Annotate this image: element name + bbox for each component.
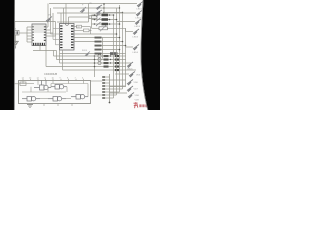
wire to vd3 xyxy=(125,28,127,31)
ic U2 left pins xyxy=(60,25,62,48)
cluster C rows xyxy=(54,56,137,70)
led VD5 xyxy=(127,62,133,68)
resistor RB6 xyxy=(110,52,118,55)
ic U1 bottom pin band xyxy=(33,43,45,46)
connector right wires xyxy=(110,74,130,93)
ic U1 right stubs xyxy=(46,27,56,36)
svg-text:LED1: LED1 xyxy=(137,9,143,11)
led VD2b xyxy=(135,19,141,25)
node dots cluster C xyxy=(94,55,112,67)
black band left xyxy=(0,0,14,110)
pin stubs bottom xyxy=(30,104,72,107)
wire riser x55.5 xyxy=(55,22,57,37)
wire to vd4 xyxy=(126,46,134,48)
node col x104 xyxy=(103,3,105,13)
bus v1 xyxy=(113,15,115,98)
bus v4 xyxy=(122,13,124,90)
wire top h1 xyxy=(49,3,137,5)
ic U2 body xyxy=(60,24,75,51)
svg-text:1N: 1N xyxy=(48,15,51,17)
ic U2 left stubs xyxy=(51,29,60,45)
transistor Q3 xyxy=(22,97,40,102)
ic U1 inner pins xyxy=(34,24,44,33)
band right soft edge xyxy=(141,0,148,110)
wire top h3 xyxy=(57,12,104,14)
led VD3 xyxy=(133,29,139,35)
wire to vd2 xyxy=(104,12,136,14)
diode D1 top xyxy=(96,5,102,10)
svg-text:LED3: LED3 xyxy=(135,26,141,28)
wire ic1 bottom path xyxy=(33,46,95,78)
wire v x88.5 xyxy=(88,4,90,23)
bus v5 xyxy=(125,28,127,86)
svg-text:LED3: LED3 xyxy=(133,37,139,39)
wire box to connector a xyxy=(91,80,103,82)
paper background xyxy=(0,0,160,110)
transistor Qm diag xyxy=(85,52,90,57)
bus v3 xyxy=(119,5,121,92)
arrow A1 xyxy=(96,13,101,26)
svg-text:LED5: LED5 xyxy=(127,68,133,70)
wire rb6 right xyxy=(118,53,126,55)
pin numbers top xyxy=(22,78,85,80)
ladder A row1 xyxy=(92,15,126,28)
transistor Q5 xyxy=(71,95,88,100)
bus joints xyxy=(113,7,127,50)
ic U1 left stubs xyxy=(27,27,32,42)
parts right of ic2 xyxy=(74,25,92,34)
transistor Q2 xyxy=(51,85,67,90)
bus v2 xyxy=(116,8,118,95)
diode VD3 left xyxy=(46,17,52,23)
circles cluster C xyxy=(98,54,101,64)
ic U2 notch xyxy=(65,24,69,26)
svg-text:CD4069UB: CD4069UB xyxy=(44,72,57,76)
crystal inner bars xyxy=(14,31,16,34)
node dots ladA xyxy=(94,14,111,25)
wire y1 down xyxy=(15,35,17,41)
capacitor C1 diagonal xyxy=(80,7,86,13)
resistor RA2 xyxy=(102,18,109,21)
svg-text:VD: VD xyxy=(89,3,92,5)
wire y1 drop xyxy=(14,22,16,31)
bus elbows bottom xyxy=(110,86,126,98)
black band right xyxy=(141,0,160,110)
transistor Q4 xyxy=(48,97,66,102)
cap C2 in box xyxy=(20,82,26,86)
wire into box left xyxy=(14,83,20,85)
boxes cluster C mid xyxy=(104,55,109,68)
box U3 outline xyxy=(19,81,91,104)
wire y1 to ic xyxy=(19,32,27,34)
pin stubs top xyxy=(23,79,84,81)
led VD8 xyxy=(128,93,134,99)
led VD7 xyxy=(127,86,133,92)
wire h y17 to resistor xyxy=(69,16,89,18)
logo red text xyxy=(139,104,149,107)
wire h from node1 xyxy=(104,7,120,9)
ic U2 right pins xyxy=(71,25,73,48)
ic U1 right inner pins xyxy=(44,26,46,41)
wire box to connector b xyxy=(91,94,103,96)
wire cluster B rows xyxy=(60,34,126,59)
wire ic2 riser a xyxy=(60,13,62,24)
led VD2 xyxy=(136,11,142,17)
connector stubs xyxy=(106,77,110,98)
led VD6 xyxy=(127,80,133,86)
resistor RA3 xyxy=(102,23,109,26)
pads cluster B xyxy=(95,37,102,55)
diode D2 top xyxy=(96,10,102,15)
resistor R1 xyxy=(89,16,97,19)
led VD4 xyxy=(133,45,139,51)
wire h from node2 xyxy=(104,12,123,14)
led VD1 xyxy=(137,2,143,8)
wire ic2 riser c xyxy=(65,4,67,24)
svg-text:LED4: LED4 xyxy=(133,52,139,54)
logo red glyph xyxy=(134,102,138,108)
ic U1 left inner pins xyxy=(32,26,34,41)
connector pads xyxy=(102,76,105,99)
wire v x104 xyxy=(103,4,105,13)
connector bus vertical xyxy=(109,74,111,103)
ic U1 body xyxy=(32,24,46,46)
ground G1 xyxy=(12,41,18,48)
potentiometer RP1 xyxy=(99,27,108,30)
node connector bottom xyxy=(109,102,111,104)
wire ic2 riser d xyxy=(68,17,70,24)
box internal wires xyxy=(20,81,88,99)
wire right h y21.5 xyxy=(117,21,136,23)
wire riser x53 xyxy=(52,13,54,33)
band left soft edge xyxy=(13,0,15,110)
wire riser x48 xyxy=(47,4,49,28)
transistor Q1 xyxy=(34,81,51,91)
wire riser x50.5 xyxy=(50,8,52,30)
wire top h2 xyxy=(53,7,104,9)
wire ic2 riser b xyxy=(63,8,65,24)
ground G2 xyxy=(27,105,33,108)
svg-text:9013: 9013 xyxy=(82,50,88,52)
resistor RA1 xyxy=(102,14,109,17)
crystal Y1 xyxy=(13,31,20,36)
wire long h y21.5 xyxy=(14,21,56,23)
led VD5b xyxy=(129,72,135,78)
boxes cluster C right xyxy=(115,55,119,71)
wire h y22 mid xyxy=(57,21,89,23)
